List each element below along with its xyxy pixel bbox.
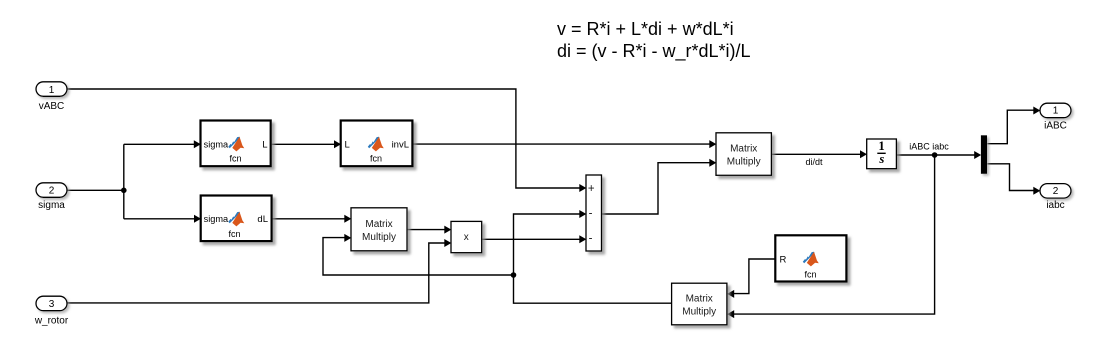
arrowhead into Matrix Multiply U3 input 2 (pointing left): [727, 310, 734, 318]
wire sigma port to junction: [66, 189, 124, 191]
arrowhead into Matrix Multiply U1 input 2: [709, 159, 716, 167]
svg-text:di/dt: di/dt: [805, 157, 823, 167]
junction dot iabc: [932, 152, 938, 158]
arrowhead into Matrix Multiply U2 input 2: [344, 234, 351, 242]
arrowhead into Sum input 2: [579, 210, 586, 218]
wire product x output to Sum input 3: [482, 238, 580, 240]
MATLAB function block sigma->dL: [201, 196, 272, 242]
wire Integrator output to Demux: [897, 154, 976, 156]
arrowhead into Demux: [974, 151, 981, 159]
arrowhead into Integrator: [860, 150, 867, 158]
svg-text:Multiply: Multiply: [727, 157, 761, 168]
arrowhead into iabc port: [1033, 187, 1040, 195]
svg-text:L: L: [345, 140, 350, 151]
wire R fcn output to Matrix Multiply U3 input 1: [733, 259, 775, 294]
arrowhead into Matrix Multiply U2 input 1: [344, 215, 351, 223]
inport 1 vABC: [36, 82, 67, 112]
wire Matrix Multiply U3 output to junction B and Sum input 2: [514, 214, 672, 303]
svg-text:Multiply: Multiply: [682, 307, 716, 318]
svg-text:+: +: [588, 183, 595, 195]
svg-text:sigma: sigma: [38, 200, 65, 211]
outport 2 iabc: [1040, 184, 1071, 211]
svg-text:x: x: [464, 232, 469, 243]
svg-text:v = R*i + L*di + w*dL*i: v = R*i + L*di + w*dL*i: [557, 19, 734, 39]
junction dot node B (R*i): [511, 272, 517, 278]
wire junction B to Matrix Multiply U2 input 2: [323, 238, 514, 275]
wire L fcn output to invL input: [271, 143, 334, 145]
outport 1 iABC: [1040, 103, 1071, 131]
wire Demux out2 to iabc port: [987, 164, 1034, 191]
svg-text:sigma: sigma: [204, 140, 229, 150]
wire w_rotor to product x input 2: [67, 243, 445, 303]
svg-text:-: -: [589, 208, 593, 220]
MATLAB function block R (flipped): [775, 235, 846, 281]
arrowhead into fcn L block: [194, 140, 201, 148]
Matrix Multiply U1 (top): [716, 133, 771, 176]
svg-text:w_rotor: w_rotor: [34, 315, 69, 326]
svg-text:Matrix: Matrix: [730, 144, 757, 155]
svg-text:Matrix: Matrix: [686, 294, 713, 305]
arrowhead into invL block: [334, 140, 341, 148]
wire Sum output to Matrix Multiply U1 input 2: [602, 163, 711, 214]
arrowhead into fcn dL block: [194, 215, 201, 223]
wire sigma branch to fcn dL block: [124, 218, 196, 220]
arrowhead into product x input 1: [444, 226, 451, 234]
svg-text:dL: dL: [257, 214, 268, 225]
arrowhead into Matrix Multiply U1 input 1: [709, 140, 716, 148]
arrowhead into Sum + input: [579, 184, 586, 192]
inport 2 sigma: [36, 183, 67, 211]
MATLAB function block L->invL: [341, 121, 413, 167]
svg-text:1: 1: [878, 139, 884, 153]
wire Demux out1 to iABC port: [987, 110, 1034, 143]
svg-text:L: L: [262, 140, 267, 151]
svg-text:fcn: fcn: [370, 154, 382, 164]
product x block: [451, 221, 482, 252]
wire iabc branch down to Matrix Multiply U3 input 2: [733, 155, 934, 314]
Demux: [981, 135, 987, 174]
Matrix Multiply U3 (bottom, flipped): [672, 283, 727, 325]
svg-text:fcn: fcn: [804, 270, 816, 280]
svg-text:Matrix: Matrix: [365, 219, 392, 230]
Integrator 1/s: [867, 139, 897, 169]
arrowhead into Sum input 3: [579, 235, 586, 243]
wire dL output to Matrix Multiply U2 input 1: [272, 218, 345, 220]
svg-text:1: 1: [49, 85, 55, 96]
inport 3 w_rotor: [34, 296, 69, 326]
arrowhead into Matrix Multiply U3 input 1 (pointing left): [727, 290, 734, 298]
wire invL output to Matrix Multiply U1 input 1: [413, 143, 711, 145]
svg-text:di = (v - R*i - w_r*dL*i)/L: di = (v - R*i - w_r*dL*i)/L: [557, 41, 751, 62]
svg-text:fcn: fcn: [228, 229, 240, 239]
svg-text:invL: invL: [392, 140, 409, 151]
svg-text:3: 3: [49, 299, 55, 310]
svg-text:sigma: sigma: [204, 214, 229, 224]
wire Matrix Multiply U1 output to Integrator: [772, 153, 861, 155]
svg-text:fcn: fcn: [229, 154, 241, 164]
svg-text:2: 2: [1053, 186, 1059, 197]
svg-text:2: 2: [49, 186, 55, 197]
Sum block: [586, 175, 602, 251]
svg-text:s: s: [878, 152, 884, 166]
svg-text:-: -: [589, 233, 593, 245]
svg-text:iabc: iabc: [1046, 200, 1064, 211]
Matrix Multiply U2 (middle): [351, 208, 407, 251]
svg-text:iABC iabc: iABC iabc: [909, 142, 949, 152]
svg-text:vABC: vABC: [39, 101, 65, 112]
arrowhead into product x input 2: [444, 239, 451, 247]
wire sigma branch to fcn L block: [124, 143, 196, 145]
wire junction vertical sigma branch: [123, 144, 125, 219]
junction dot sigma branch: [121, 188, 127, 194]
svg-text:1: 1: [1053, 106, 1059, 117]
wire Matrix Multiply U2 output to product x input 1: [407, 229, 445, 231]
svg-text:R: R: [780, 254, 787, 265]
wire vABC to Sum + input: [67, 89, 580, 188]
arrowhead into iABC port: [1033, 107, 1040, 115]
svg-text:iABC: iABC: [1044, 120, 1067, 131]
MATLAB function block sigma->L: [201, 121, 271, 167]
svg-text:Multiply: Multiply: [362, 232, 396, 243]
